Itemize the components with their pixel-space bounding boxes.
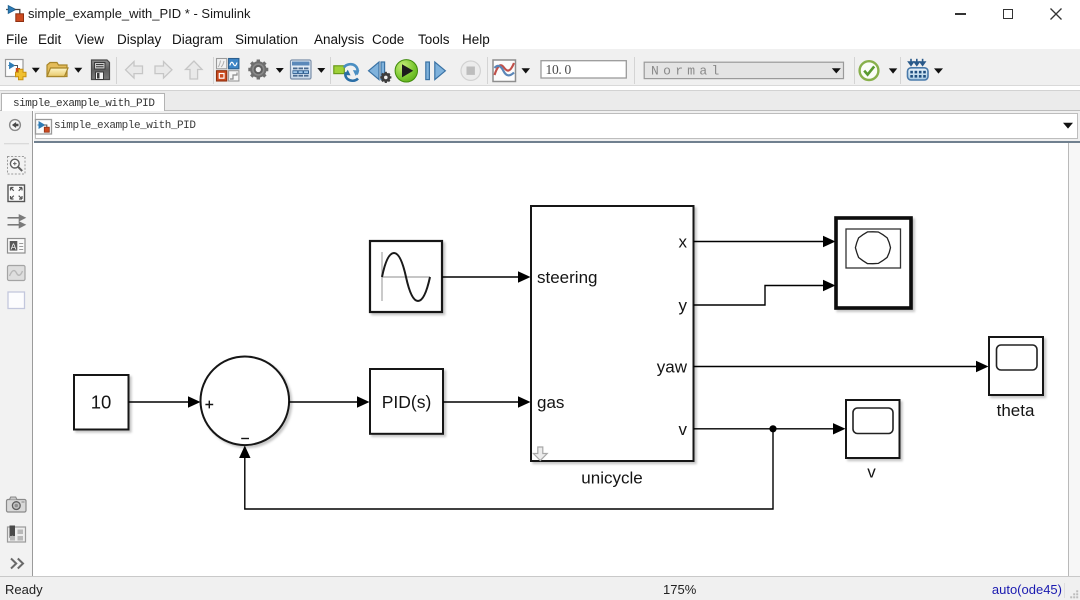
simulation time field: [541, 61, 626, 78]
caret validate: [889, 68, 898, 73]
expand chevrons: [11, 559, 23, 569]
annotation tool: [8, 239, 26, 254]
stop button (disabled): [461, 61, 480, 80]
constant block "10": [74, 375, 129, 430]
tab bar: [0, 90, 1080, 111]
update diagram button: [334, 64, 360, 81]
sine wave block: [370, 241, 442, 312]
unicycle subsystem block: [531, 206, 694, 488]
title bar: [0, 0, 1080, 28]
step forward button: [426, 62, 446, 80]
canvas: [34, 143, 1080, 576]
breadcrumb: [34, 111, 1080, 143]
blank subsystem tool: [8, 292, 25, 309]
window controls: [955, 13, 966, 15]
XY graph block: [836, 218, 911, 308]
toolbar separators: [117, 57, 901, 84]
status bar: [0, 576, 1080, 600]
toolbar: [0, 49, 1080, 86]
build button: [908, 59, 929, 80]
PID block: [370, 369, 443, 434]
wire y to XY graph: [694, 280, 836, 305]
wire PID to gas: [443, 396, 531, 407]
step back button: [369, 62, 392, 83]
caret open: [74, 68, 82, 73]
wire sum to PID: [289, 396, 369, 407]
zoom tool: [8, 157, 26, 175]
caret build: [934, 68, 943, 73]
save button: [92, 60, 110, 80]
open button: [47, 63, 68, 77]
back button (disabled): [126, 62, 143, 79]
breadcrumb dropdown caret: [1063, 123, 1073, 129]
caret new: [32, 68, 40, 73]
up button (disabled): [186, 61, 203, 79]
library browser button: [217, 59, 239, 82]
sidebar hide button: [10, 120, 21, 131]
svg-text:Normal: Normal: [651, 64, 724, 79]
feedback wire v to sum minus input: [239, 429, 773, 509]
caret gear: [276, 68, 284, 73]
new model button: [6, 60, 27, 80]
mode dropdown: [644, 62, 843, 78]
validate button: [860, 61, 879, 80]
caret scope: [522, 68, 531, 73]
scope view button: [493, 60, 516, 82]
svg-text:A: A: [11, 241, 17, 251]
wire constant to sum: [129, 396, 201, 407]
snapshot tool: [7, 497, 27, 512]
fit to view tool: [8, 185, 25, 202]
image annotation tool: [8, 266, 26, 281]
model settings gear button: [248, 60, 268, 80]
sum block: [201, 357, 290, 446]
breadcrumb model icon: [36, 120, 52, 135]
wire v to scope v with branch junction: [694, 423, 846, 434]
svg-text:10. 0: 10. 0: [546, 62, 572, 77]
wire x to XY graph: [694, 236, 836, 247]
run button: [395, 60, 417, 82]
model explorer button: [291, 60, 312, 79]
menu bar: [0, 28, 1080, 53]
status resize grip: [1070, 590, 1078, 598]
signal routing tool: [8, 215, 25, 227]
sidebar: [0, 111, 33, 576]
theta scope block: [989, 337, 1043, 420]
sidebar separator: [4, 143, 29, 145]
wire sine to steering: [442, 271, 531, 282]
wire yaw to theta scope: [694, 361, 989, 372]
scope v block: [846, 400, 900, 482]
library link tool: [8, 526, 26, 543]
caret explorer: [317, 68, 325, 73]
forward button (disabled): [155, 62, 172, 79]
